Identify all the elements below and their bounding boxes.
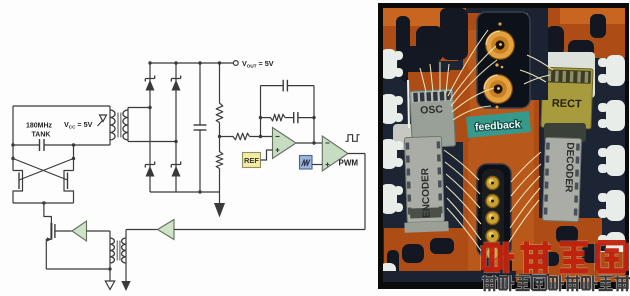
svg-text:OSC: OSC (420, 103, 444, 116)
svg-text:ENCODER: ENCODER (420, 167, 433, 218)
svg-text:REF: REF (244, 156, 259, 165)
svg-text:RECT: RECT (552, 97, 583, 110)
svg-text:TANK: TANK (32, 132, 51, 139)
svg-text:VCC = 5V: VCC = 5V (64, 120, 93, 129)
svg-text:180MHz: 180MHz (26, 123, 53, 130)
svg-text:VOUT = 5V: VOUT = 5V (242, 59, 274, 68)
svg-text:PWM: PWM (339, 159, 359, 168)
svg-text:DECODER: DECODER (563, 142, 576, 193)
